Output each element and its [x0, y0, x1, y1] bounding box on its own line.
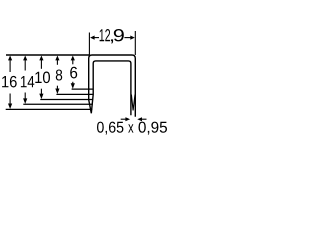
- top dimension right arrow: [130, 36, 135, 40]
- up arrow 10: [39, 56, 43, 61]
- label 6: [70, 67, 77, 79]
- length line 14: [23, 103, 93, 105]
- label 8: [56, 69, 62, 80]
- staple outer contour: [89, 55, 136, 117]
- length line 16: [6, 108, 93, 110]
- label 16: [2, 76, 17, 88]
- wire dimension left-pointing arrow: [141, 118, 146, 120]
- up arrow 14: [23, 56, 27, 61]
- top dimension left arrow: [90, 36, 95, 40]
- label 14: [21, 76, 34, 87]
- down arrow 8: [56, 86, 58, 89]
- left leg tip: [89, 94, 93, 113]
- down arrow 14: [24, 93, 26, 100]
- length line 6: [72, 88, 94, 90]
- label 10: [35, 72, 50, 84]
- length line 8: [56, 93, 93, 95]
- up arrow 16: [8, 56, 12, 61]
- top dimension label 12,9: [100, 29, 124, 43]
- up arrow 6: [71, 56, 75, 61]
- down arrow 10: [40, 89, 42, 95]
- top dimension right extension line: [134, 31, 136, 55]
- top dimension left extension line: [88, 33, 90, 56]
- up arrow 8: [55, 56, 59, 61]
- staple inner contour: [93, 61, 131, 115]
- down arrow 16: [9, 94, 11, 105]
- length line 10: [40, 99, 93, 101]
- wire dimension label 0,65 x 0,95: [97, 122, 167, 135]
- right leg bevel lines: [131, 95, 135, 111]
- down arrow 6: [72, 82, 74, 84]
- wire dimension right-pointing arrow: [121, 118, 127, 120]
- left reference top line: [6, 54, 89, 56]
